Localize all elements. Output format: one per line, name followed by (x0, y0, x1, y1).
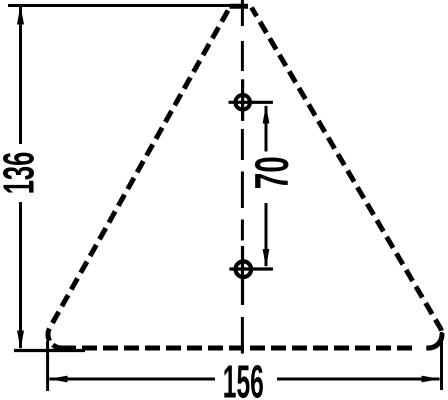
vertical centerline (long dashes) (241, 0, 244, 354)
svg-text:156: 156 (223, 356, 264, 400)
svg-text:70: 70 (245, 156, 298, 189)
triangle right edge (dashed) (252, 8, 443, 349)
mounting hole top (229, 79, 273, 121)
arrowhead 136 down (17, 331, 24, 350)
triangle bottom edge (dashed) (76, 346, 413, 351)
svg-text:136: 136 (0, 152, 44, 195)
arrowhead 70 down (263, 249, 270, 268)
arrowhead 156 left (49, 376, 68, 383)
mounting hole bottom (229, 246, 273, 305)
triangle left edge (dashed) (48, 11, 228, 349)
dimension line 136 (vertical, left) (19, 7, 22, 348)
bottom-right corner solid arc (426, 333, 442, 348)
bottom-left extension line (14, 349, 85, 352)
right extension line for 156 (440, 332, 443, 390)
left extension line for 156 (46, 341, 49, 391)
top extension line (8, 4, 247, 7)
apex corner solid bar (230, 4, 249, 9)
bottom-left corner solid arc (53, 345, 76, 348)
arrowhead 70 up (263, 105, 270, 124)
arrowhead 156 right (422, 376, 441, 383)
arrowhead 136 up (17, 6, 24, 25)
dimension line 70 (vertical, center-right) (265, 106, 268, 266)
dimension line 156 (horizontal, bottom) (50, 378, 440, 381)
